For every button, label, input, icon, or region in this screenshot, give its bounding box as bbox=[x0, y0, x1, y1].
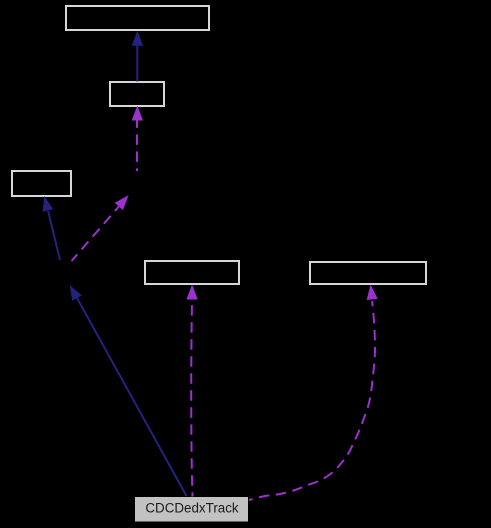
usage arrow E5 (dashed purple, CDCDedxTrack to B4) bbox=[186, 285, 197, 497]
class box B5 (right, unlabeled) bbox=[310, 262, 426, 284]
inheritance arrow E1 (solid blue, B2 to B1) bbox=[132, 31, 143, 82]
usage arrow E3 (dashed purple, label node to B2) bbox=[132, 106, 143, 172]
class box B2 (second level, unlabeled) bbox=[110, 82, 164, 106]
class box B1 (top, unlabeled) bbox=[66, 6, 209, 30]
inheritance arrow E2b (solid blue, CDCDedxTrack to junction node) bbox=[70, 285, 187, 496]
class box B4 (middle, unlabeled) bbox=[145, 261, 239, 284]
class box CDCDedxTrack (current node, gray) bbox=[135, 497, 248, 522]
usage arrow E6 (dashed purple, CDCDedxTrack to B5, curved) bbox=[249, 285, 378, 501]
inheritance arrow E2a (solid blue, junction node to B3) bbox=[43, 196, 60, 260]
class box B3 (left, unlabeled) bbox=[12, 171, 71, 196]
usage arrow E4 (dashed purple, junction node to label node) bbox=[72, 195, 129, 261]
svg-text:CDCDedxTrack: CDCDedxTrack bbox=[145, 501, 239, 516]
